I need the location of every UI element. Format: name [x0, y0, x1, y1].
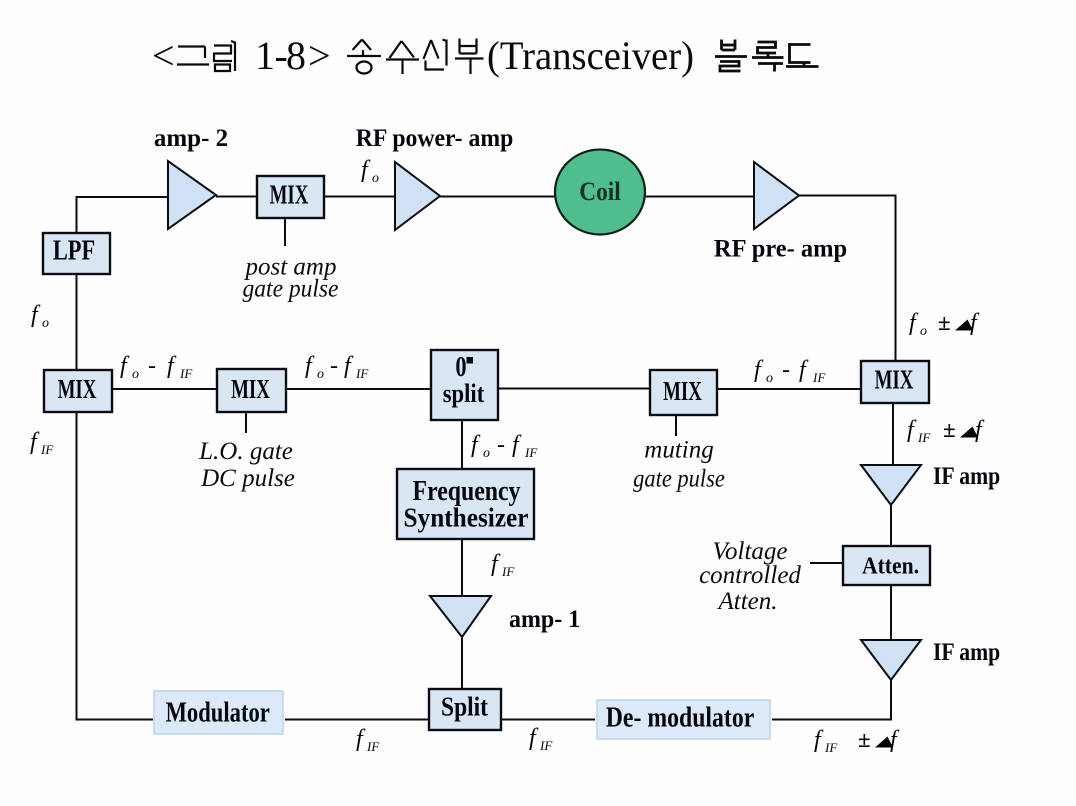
svg-text:Synthesizer: Synthesizer: [403, 502, 528, 533]
wire Split to De-modulator: [501, 719, 595, 721]
svg-text:RF pre- amp: RF pre- amp: [714, 235, 847, 263]
svg-text:amp- 2: amp- 2: [154, 125, 228, 152]
svg-text:±: ±: [938, 310, 951, 335]
svg-text:MIX: MIX: [875, 365, 914, 395]
hangul 블: [715, 40, 747, 72]
amplifier RF pre amp: [754, 162, 799, 229]
wire Modulator to Split: [285, 719, 429, 721]
wire split down stub: [461, 420, 463, 469]
svg-text:0: 0: [455, 352, 466, 383]
svg-text:±: ±: [943, 417, 956, 442]
hangul 부: [455, 39, 484, 75]
label Voltage controlled Atten: [699, 538, 801, 615]
mixer MIX1: [257, 176, 324, 218]
mixer MIX5: [861, 361, 929, 403]
block Modulator: [154, 691, 283, 734]
svg-text:MIX: MIX: [663, 377, 702, 407]
svg-text:L.O. gate: L.O. gate: [198, 438, 293, 465]
svg-text:RF power- amp: RF power- amp: [356, 124, 514, 152]
label post amp gate pulse: [243, 254, 339, 303]
svg-text:Modulator: Modulator: [166, 696, 270, 728]
block Split: [429, 689, 501, 730]
hangul 송: [347, 40, 381, 57]
wire row2 MIX4-MIX5: [717, 388, 861, 390]
wire MIX3 gate stub: [245, 412, 247, 433]
wire row2 MIX2-MIX3: [112, 388, 217, 390]
svg-text:controlled: controlled: [699, 562, 801, 589]
hangul 신: [424, 40, 447, 70]
wire row2 MIX3-split: [286, 388, 431, 390]
svg-text:gate pulse: gate pulse: [633, 465, 725, 492]
svg-text:MIX: MIX: [231, 375, 270, 405]
wire FreqSynth to amp1: [461, 539, 463, 596]
block LPF: [43, 233, 110, 274]
svg-text:MIX: MIX: [270, 180, 309, 210]
mixer MIX4: [650, 370, 717, 415]
svg-text:1: 1: [255, 33, 275, 78]
label fIF +- delta f bottom: [814, 727, 900, 755]
amplifier RF power amp: [395, 162, 440, 230]
wire MIX4 gate stub: [675, 415, 677, 436]
svg-text:DC pulse: DC pulse: [200, 465, 295, 492]
hangul 수: [386, 41, 419, 74]
title: <그림 1-8> 송수신부(Transceiver) 블록도: [152, 33, 819, 78]
label f0 +- delta f: [909, 310, 980, 339]
block De-modulator: [597, 700, 770, 739]
hangul 록: [752, 42, 784, 72]
hangul 도: [786, 45, 819, 67]
wire IFamp2 down to bottom bus: [772, 680, 891, 720]
amplifier amp-2: [168, 161, 216, 229]
svg-text:±: ±: [858, 727, 871, 752]
block Frequency Synthesizer: [397, 469, 534, 539]
mixer MIX3: [217, 369, 286, 412]
wire MIX5 down to IF amp1: [892, 403, 894, 465]
wire left bus MIX2 down to Modulator: [77, 412, 154, 720]
svg-text:Voltage: Voltage: [713, 538, 788, 565]
svg-text:De- modulator: De- modulator: [606, 700, 755, 733]
svg-text:<: <: [152, 33, 175, 78]
label L.O. gate DC pulse: [198, 438, 295, 492]
coil: [555, 150, 645, 235]
block Atten: [843, 546, 930, 585]
mixer MIX2: [44, 370, 112, 412]
svg-text:Atten.: Atten.: [716, 588, 777, 615]
svg-text:Atten.: Atten.: [862, 552, 919, 578]
svg-text:(Transceiver): (Transceiver): [487, 33, 694, 78]
svg-text:IF amp: IF amp: [933, 638, 1000, 666]
svg-text:Split: Split: [441, 692, 489, 722]
svg-text:amp- 1: amp- 1: [509, 605, 580, 633]
svg-text:MIX: MIX: [58, 375, 97, 405]
hangul 림: [214, 41, 235, 71]
wire into Atten from left: [810, 562, 843, 564]
svg-text:split: split: [443, 380, 484, 409]
wire amp1 to Split: [461, 637, 463, 689]
amplifier IF amp 2: [861, 640, 921, 680]
svg-text:IF amp: IF amp: [933, 462, 1000, 490]
wire LPF to MIX2: [76, 274, 78, 370]
label fIF +- delta f below MIX5: [907, 417, 985, 445]
svg-text:LPF: LPF: [53, 235, 95, 266]
block 0 split: [431, 350, 498, 420]
wire IFamp1 to Atten: [890, 505, 892, 546]
hangul 그: [177, 47, 209, 65]
label muting gate pulse: [633, 437, 725, 493]
svg-text:Coil: Coil: [579, 178, 621, 207]
amplifier amp-1: [430, 596, 491, 637]
wire Atten to IF amp 2: [890, 585, 892, 640]
svg-text:gate pulse: gate pulse: [243, 275, 339, 303]
amplifier IF amp 1: [861, 465, 921, 505]
svg-text:muting: muting: [644, 437, 713, 464]
wire row1 with LPF riser and right descent: [77, 196, 896, 362]
svg-text:>: >: [308, 33, 331, 78]
wire row2 split-MIX4: [498, 388, 650, 390]
svg-text:8: 8: [286, 33, 306, 78]
wire MIX1 gate stub: [284, 218, 286, 246]
